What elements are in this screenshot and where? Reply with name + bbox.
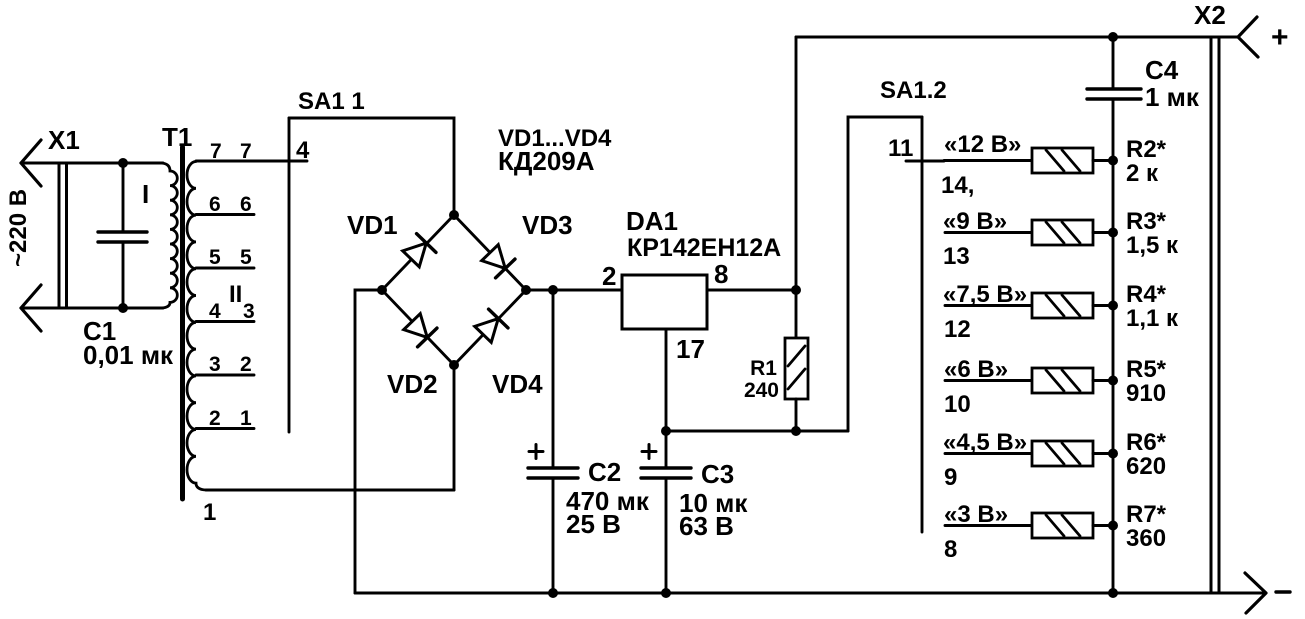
node C1 bottom junction: [118, 303, 128, 313]
switch SA1.2 wiper bar: [921, 117, 924, 532]
svg-text:II: II: [229, 281, 242, 308]
svg-text:VD3: VD3: [522, 210, 573, 240]
connector X1 arrow bottom: [21, 285, 41, 331]
svg-text:7: 7: [240, 140, 252, 163]
svg-text:R4*: R4*: [1126, 281, 1167, 308]
svg-text:1 мк: 1 мк: [1145, 82, 1200, 112]
svg-text:2: 2: [209, 407, 221, 430]
regulator DA1: [602, 206, 781, 364]
svg-text:VD2: VD2: [387, 369, 438, 399]
connector X2 arrow plus: [1238, 17, 1258, 57]
connector X1 plug double bars: [59, 163, 67, 308]
svg-text:7: 7: [210, 140, 222, 163]
wire SA1.1 top to bridge: [289, 118, 454, 215]
connector X1 arrow top: [21, 140, 41, 186]
svg-text:9: 9: [944, 464, 957, 491]
svg-text:6: 6: [240, 193, 252, 216]
svg-text:«4,5 В»: «4,5 В»: [943, 429, 1027, 456]
transformer tap 2-1 wire: [196, 427, 254, 430]
svg-text:R5*: R5*: [1126, 356, 1167, 383]
svg-text:R1: R1: [750, 357, 777, 380]
svg-text:11: 11: [888, 135, 913, 162]
node R4 bus junction: [1108, 301, 1118, 311]
svg-text:4: 4: [296, 137, 310, 164]
wire DA1 output pin 8: [707, 289, 796, 292]
svg-text:~220 В: ~220 В: [5, 189, 32, 267]
transformer tap 5 wire: [196, 267, 254, 270]
svg-text:«6 В»: «6 В»: [944, 356, 1008, 383]
svg-text:«3 В»: «3 В»: [944, 501, 1008, 528]
node R6 bus junction: [1108, 449, 1118, 459]
svg-text:КР142ЕН12А: КР142ЕН12А: [627, 234, 781, 262]
resistor R5: [1032, 368, 1113, 393]
switch SA1.2 contact 11 tick: [906, 160, 944, 163]
svg-text:25 В: 25 В: [566, 509, 621, 539]
transformer tap 6 wire: [196, 213, 254, 216]
svg-text:+: +: [1271, 21, 1289, 54]
diode VD1: [401, 234, 436, 269]
node bus bottom junction: [1108, 588, 1118, 598]
node C1 top junction: [118, 158, 128, 168]
wire X1 top to transformer: [24, 162, 163, 165]
row 3V wire: [945, 524, 1032, 527]
node C3 bottom junction: [661, 588, 671, 598]
svg-text:2: 2: [240, 353, 252, 376]
minus rail bottom bus: [355, 592, 1263, 595]
node bridge top: [449, 210, 459, 220]
svg-text:240: 240: [744, 379, 779, 402]
diode VD3: [480, 243, 515, 278]
svg-text:I: I: [142, 179, 149, 209]
svg-text:DA1: DA1: [626, 206, 678, 236]
node pin17 junction: [661, 426, 671, 436]
svg-text:C3: C3: [701, 459, 734, 489]
svg-text:КД209А: КД209А: [498, 146, 595, 176]
svg-text:6: 6: [209, 193, 221, 216]
svg-text:«9 В»: «9 В»: [943, 208, 1007, 235]
svg-text:R7*: R7*: [1126, 501, 1167, 528]
node R7 bus junction: [1108, 521, 1118, 531]
row 9V wire: [945, 231, 1032, 234]
svg-text:1,1 к: 1,1 к: [1126, 305, 1179, 332]
svg-text:T1: T1: [162, 122, 192, 152]
svg-text:X1: X1: [48, 125, 80, 155]
svg-text:910: 910: [1126, 380, 1166, 407]
transformer bottom lead 1 wire to bridge: [206, 489, 454, 492]
row 7.5V wire: [945, 304, 1032, 307]
wire feedback bus vertical: [1112, 37, 1115, 593]
svg-text:3: 3: [209, 353, 221, 376]
resistor R2: [1032, 148, 1113, 173]
svg-text:13: 13: [943, 243, 970, 270]
svg-text:63 В: 63 В: [679, 511, 734, 541]
wire bridge right to DA1 input: [526, 289, 622, 292]
wire bridge bottom to tap 1: [453, 365, 456, 490]
svg-text:1,5 к: 1,5 к: [1126, 232, 1179, 259]
switch SA1.2 bracket: [848, 117, 922, 431]
capacitor C4: [1087, 55, 1200, 112]
transformer tap 4-3 wire: [196, 320, 254, 323]
wire X1 bottom to transformer: [24, 307, 163, 310]
svg-text:5: 5: [240, 246, 252, 269]
svg-text:4: 4: [209, 300, 221, 323]
svg-text:C4: C4: [1145, 55, 1179, 85]
connector X2 arrow minus: [1245, 573, 1266, 613]
node bridge bottom: [449, 360, 459, 370]
node R5 bus junction: [1108, 376, 1118, 386]
svg-text:R2*: R2*: [1126, 136, 1167, 163]
wire top bus from corner to X2: [796, 36, 1238, 39]
capacitor C3: [641, 431, 748, 593]
wire pin17 row to SA1.2: [666, 430, 848, 433]
row 4.5V wire: [945, 452, 1032, 455]
svg-text:R3*: R3*: [1126, 208, 1167, 235]
svg-text:VD4: VD4: [492, 369, 543, 399]
node top bus junction: [1108, 32, 1118, 42]
node C2 bottom junction: [548, 588, 558, 598]
svg-text:2: 2: [602, 261, 616, 291]
svg-text:10: 10: [944, 391, 971, 418]
svg-text:3: 3: [243, 300, 255, 323]
wire bridge left to minus rail: [355, 290, 382, 593]
transformer T1 core: [180, 147, 185, 499]
node C2 branch: [548, 285, 558, 295]
svg-text:12: 12: [944, 316, 971, 343]
svg-text:«12 В»: «12 В»: [944, 131, 1021, 158]
row 6V wire: [945, 379, 1032, 382]
svg-text:1: 1: [203, 499, 216, 526]
svg-text:8: 8: [944, 536, 957, 563]
svg-text:SA1 1: SA1 1: [298, 88, 365, 115]
capacitor C1: [83, 163, 174, 370]
node bridge left: [377, 285, 387, 295]
svg-text:620: 620: [1126, 453, 1166, 480]
svg-text:0,01 мк: 0,01 мк: [83, 340, 174, 370]
svg-text:2 к: 2 к: [1126, 160, 1159, 187]
node R2 bus junction: [1108, 156, 1118, 166]
resistor R1: [744, 338, 808, 431]
capacitor C2: [528, 290, 650, 593]
transformer tap 7 wire: [196, 160, 307, 163]
node R3 bus junction: [1108, 228, 1118, 238]
transformer T1 secondary winding II: [187, 162, 242, 491]
svg-text:360: 360: [1126, 525, 1166, 552]
svg-text:R6*: R6*: [1126, 429, 1167, 456]
label minus: [1276, 590, 1290, 593]
transformer tap 3-2 wire: [196, 374, 254, 377]
svg-text:5: 5: [209, 246, 221, 269]
diode VD2: [402, 312, 437, 347]
svg-text:X2: X2: [1194, 0, 1226, 30]
svg-text:1: 1: [240, 407, 252, 430]
svg-text:C2: C2: [588, 457, 621, 487]
diode VD4: [473, 309, 508, 344]
connector X2 plug double bars: [1211, 37, 1219, 592]
svg-text:14,: 14,: [941, 172, 974, 199]
resistor R6: [1032, 441, 1113, 466]
bridge edge wires: [382, 215, 526, 365]
wire DA1 pin 17 down: [665, 329, 668, 431]
node bridge right: [521, 285, 531, 295]
svg-text:«7,5 В»: «7,5 В»: [943, 281, 1027, 308]
wire top bus corner down to pin8 and R1: [795, 37, 798, 338]
resistor R3: [1032, 220, 1113, 245]
svg-text:17: 17: [676, 334, 705, 364]
svg-text:SA1.2: SA1.2: [880, 77, 947, 104]
svg-text:VD1: VD1: [347, 210, 398, 240]
svg-text:8: 8: [714, 259, 728, 289]
transformer T1 primary winding I: [142, 163, 177, 308]
switch SA1.1 wiper bar: [288, 118, 291, 432]
row 12V wire: [944, 159, 1032, 162]
resistor R7: [1032, 513, 1113, 538]
node R1 bottom junction: [791, 426, 801, 436]
resistor R4: [1032, 293, 1113, 318]
node pin8 junction: [791, 285, 801, 295]
